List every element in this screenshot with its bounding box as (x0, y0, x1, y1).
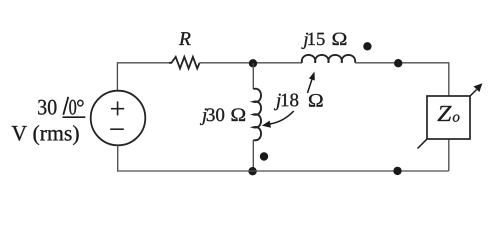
node A junction dot (top of middle branch) (249, 59, 257, 67)
node B terminal dot (top port) (394, 59, 402, 67)
impedance box Zo (427, 96, 470, 139)
node C junction dot (bottom of middle branch) (248, 167, 256, 175)
label R (179, 32, 191, 45)
coupling dot for j30 (260, 152, 268, 160)
inductor j30 (vertical) (253, 89, 261, 141)
inductor j15 (top) (302, 55, 355, 63)
resistor R (169, 57, 200, 69)
angle slash of phasor notation (63, 97, 68, 115)
coupling dot for j15 (363, 42, 371, 50)
wire: Zo box bottom to bottom rail (448, 139, 450, 171)
label j15 ohm (301, 33, 346, 49)
node D terminal dot (bottom port) (393, 167, 401, 175)
wire: j15 to top-right corner, down to Zo (355, 63, 449, 96)
wire: source bottom to bottom rail (117, 145, 119, 171)
label j18 (mutual impedance) (274, 94, 298, 111)
wire: resistor to j15 coil (200, 62, 302, 64)
wire: middle branch bottom segment (252, 140, 254, 171)
voltage source Vs (91, 91, 146, 146)
bottom rail wire (117, 170, 449, 172)
label ohm of j18 (309, 94, 323, 107)
arrow from j18 label to j15 coil (308, 72, 315, 94)
label j30 ohm (200, 108, 245, 125)
variable arrow head (top-right of Zo) (470, 83, 482, 96)
wire: middle branch top segment (252, 63, 254, 89)
variable arrow tail (bottom-left of Zo) (418, 139, 427, 148)
underline of phasor angle (63, 116, 86, 118)
curved arrow from j18 label to j30 coil (262, 111, 294, 128)
label 30 (source magnitude) (38, 100, 56, 115)
wire: source top to resistor (117, 63, 169, 91)
label V (rms) (12, 125, 79, 145)
label 0 degrees (phasor angle) (69, 100, 83, 115)
